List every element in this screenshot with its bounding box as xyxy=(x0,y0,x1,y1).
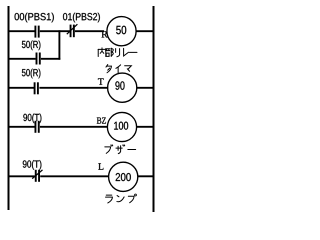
wire rung1 to coil xyxy=(75,30,104,32)
contact 50 R (NO) xyxy=(35,82,38,94)
coil value 200 xyxy=(116,173,131,181)
coil value 90 xyxy=(115,81,124,89)
contact 90 T (NC) xyxy=(32,170,42,182)
label BZ xyxy=(97,117,106,123)
wire rung2 to coil xyxy=(39,87,108,89)
coil value 100 xyxy=(114,122,128,130)
wire rung4 left xyxy=(8,175,35,177)
label lamp xyxy=(106,194,137,203)
wire rung2 right xyxy=(136,87,152,89)
coil value 50 xyxy=(116,26,126,34)
branch wire left xyxy=(8,58,36,60)
coil R 50 (internal relay) xyxy=(107,17,136,46)
left rail xyxy=(8,6,10,210)
branch wire right xyxy=(41,58,60,60)
branch vertical joiner xyxy=(58,30,60,59)
wire rung3 left xyxy=(8,126,35,128)
wire rung4 right xyxy=(138,175,153,177)
wire rung1 right xyxy=(136,30,153,32)
wire rung3 right xyxy=(136,126,152,128)
label 90(T) rung3 xyxy=(23,114,41,124)
wire rung3 to coil xyxy=(40,126,108,128)
label 00(PBS1) xyxy=(15,13,54,23)
right rail xyxy=(153,6,155,212)
contact 00 PBS1 (NO) xyxy=(35,26,38,38)
coil T 90 (timer) xyxy=(108,73,137,102)
label R xyxy=(101,31,107,37)
label L xyxy=(98,163,103,169)
label 90(T) rung4 xyxy=(23,160,42,170)
coil BZ 100 (buzzer) xyxy=(107,112,136,141)
coil L 200 (lamp) xyxy=(109,162,138,191)
contact 50 R branch (NO) xyxy=(37,53,40,65)
wire rung2 left xyxy=(8,87,35,89)
wire rung4 to coil xyxy=(40,175,109,177)
label naibu-relay xyxy=(98,48,137,57)
contact 01 PBS2 (NC) xyxy=(67,24,78,37)
label 01(PBS2) xyxy=(63,13,100,23)
contact 90 T (NO) xyxy=(35,121,38,133)
label 50(R) branch xyxy=(22,41,41,51)
label taima xyxy=(106,65,131,73)
wire rung1 mid xyxy=(40,30,70,32)
wire rung1 left xyxy=(8,30,35,32)
label T xyxy=(98,78,104,84)
label 50(R) rung2 xyxy=(22,69,41,79)
label buzzer xyxy=(105,145,136,154)
